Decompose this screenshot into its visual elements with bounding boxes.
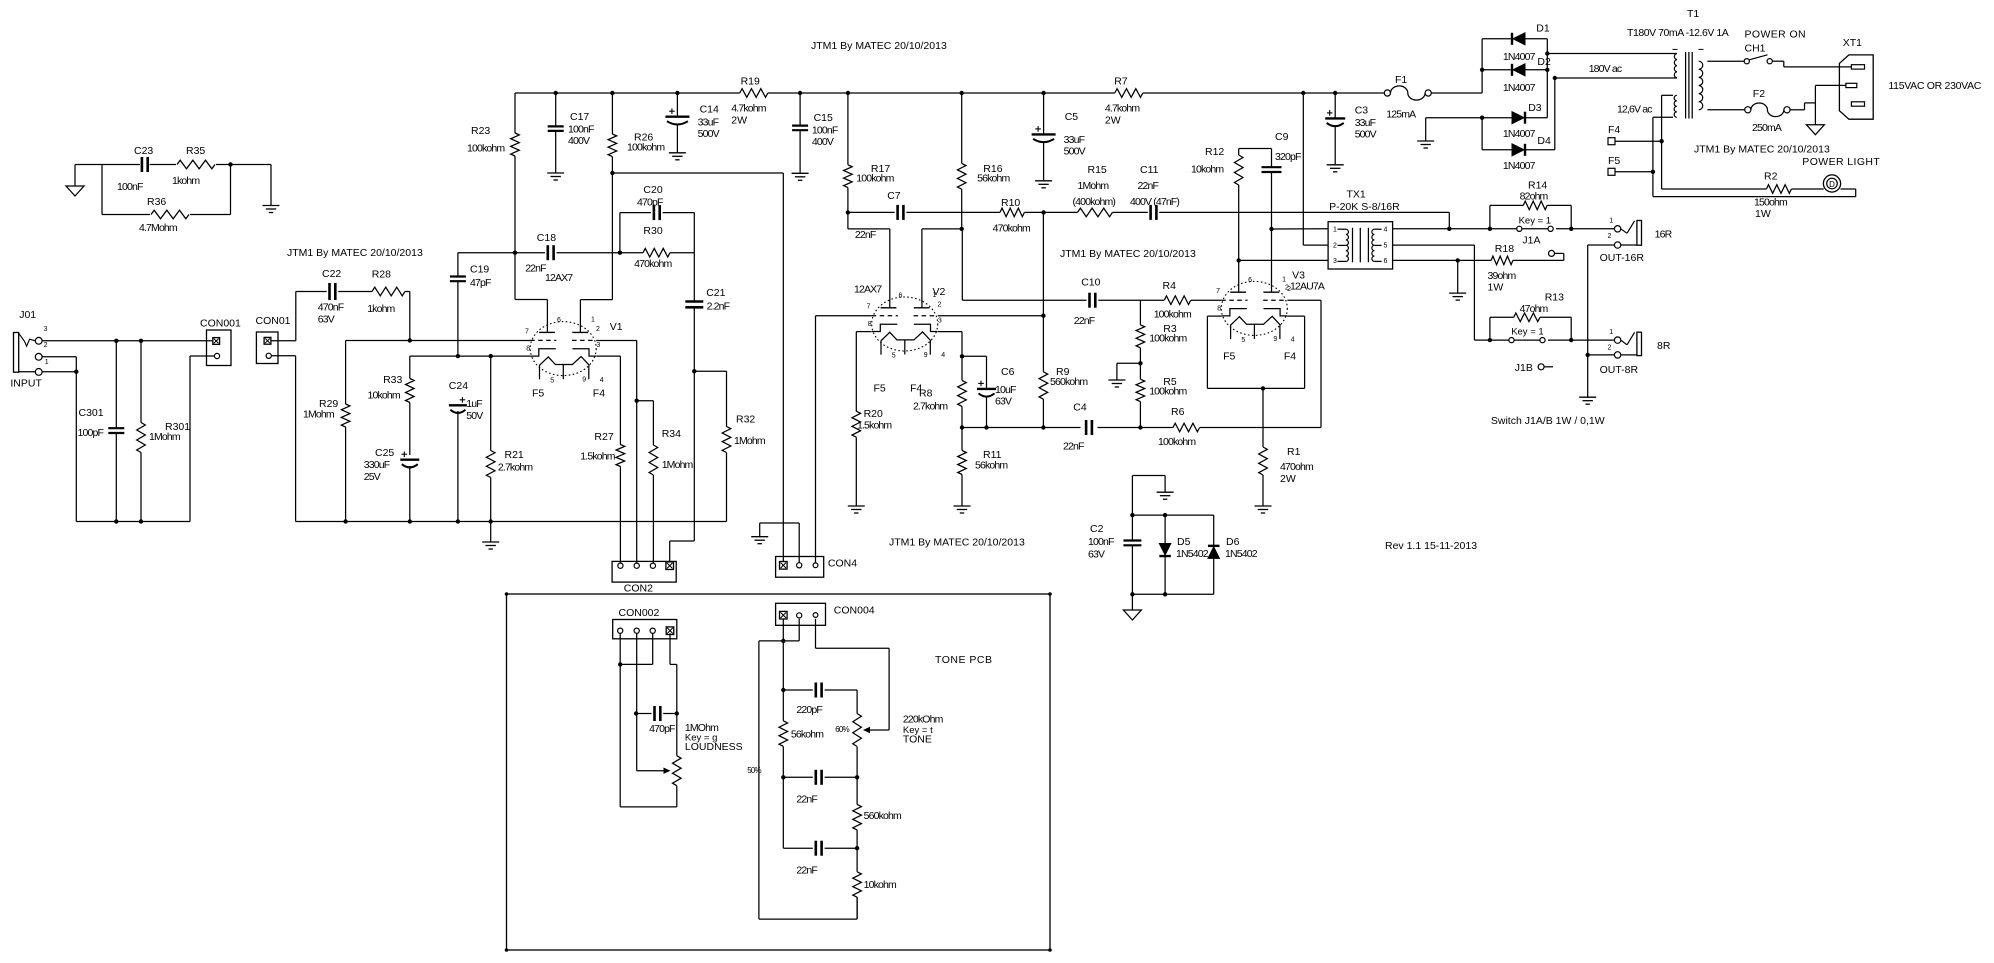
wire: CON002 pin2 to loudness wiper	[636, 633, 638, 770]
svg-text:F4: F4	[910, 383, 922, 395]
svg-text:C2: C2	[1090, 523, 1104, 535]
ground (earth) of V1 stage rail	[490, 522, 492, 542]
svg-text:22nF: 22nF	[1063, 441, 1084, 453]
svg-text:F5: F5	[874, 383, 886, 395]
svg-text:330uF: 330uF	[364, 459, 390, 471]
capacitor C19	[457, 253, 459, 276]
ground (earth) below C5	[1035, 180, 1052, 182]
svg-text:100pF: 100pF	[78, 427, 104, 439]
wire: CON004 pin2 stub	[798, 619, 800, 641]
connector CON001	[207, 330, 232, 366]
svg-text:OUT-8R: OUT-8R	[1600, 364, 1639, 376]
svg-text:C7: C7	[887, 190, 901, 202]
svg-text:100nF: 100nF	[812, 125, 838, 137]
tube V2 plates	[881, 307, 897, 309]
svg-text:R6: R6	[1171, 406, 1185, 418]
svg-text:7: 7	[1216, 288, 1220, 295]
svg-text:56kohm: 56kohm	[975, 460, 1008, 472]
wire: TX1 pin3 line	[1239, 259, 1328, 261]
svg-text:7: 7	[867, 304, 871, 311]
svg-text:T1: T1	[1687, 8, 1699, 20]
svg-text:C21: C21	[706, 287, 725, 299]
svg-text:2W: 2W	[731, 115, 747, 127]
resistor R21	[490, 356, 492, 451]
svg-text:Switch J1A/B 1W / 0,1W: Switch J1A/B 1W / 0,1W	[1491, 415, 1605, 427]
resistor R29	[345, 341, 347, 405]
svg-text:22nF: 22nF	[1138, 180, 1159, 192]
svg-text:100kohm: 100kohm	[856, 173, 894, 185]
wire: R6 up to V3 right grid	[1320, 300, 1322, 427]
svg-text:1: 1	[1333, 227, 1337, 234]
svg-text:2.7kohm: 2.7kohm	[913, 401, 948, 413]
ground (chassis) of bias network	[1131, 594, 1133, 610]
svg-text:12AX7: 12AX7	[545, 272, 573, 284]
power light lamp	[1823, 175, 1840, 192]
svg-text:C4: C4	[1073, 402, 1087, 414]
svg-text:C24: C24	[449, 380, 468, 392]
svg-text:1Mohm: 1Mohm	[662, 459, 694, 471]
svg-text:J01: J01	[19, 309, 36, 321]
capacitor C18	[546, 245, 549, 260]
svg-text:100kohm: 100kohm	[627, 142, 665, 154]
svg-text:22nF: 22nF	[796, 794, 817, 806]
svg-text:250mA: 250mA	[1752, 122, 1782, 134]
wire: CH1 to XT1 line pin	[1772, 60, 1784, 62]
svg-text:R36: R36	[147, 196, 166, 208]
svg-text:1Mohm: 1Mohm	[149, 431, 181, 443]
svg-text:C10: C10	[1081, 277, 1100, 289]
wire: OUT-16R to ground column	[1588, 244, 1615, 246]
svg-text:50V: 50V	[466, 410, 483, 422]
svg-text:R30: R30	[643, 225, 662, 237]
wire: 180V ac lower	[1555, 77, 1677, 79]
svg-text:C17: C17	[570, 111, 589, 123]
svg-text:R34: R34	[662, 428, 681, 440]
ground (earth) near CON4	[751, 536, 768, 538]
svg-text:R33: R33	[383, 374, 402, 386]
svg-text:8: 8	[526, 346, 530, 353]
resistor R7	[1115, 89, 1143, 98]
capacitor C15	[799, 93, 801, 125]
svg-text:F2: F2	[1753, 88, 1765, 100]
svg-text:JTM1 By MATEC 20/10/2013: JTM1 By MATEC 20/10/2013	[1694, 144, 1830, 156]
svg-text:LOUDNESS: LOUDNESS	[685, 741, 743, 753]
wire: divider midpoint to ground	[1117, 362, 1141, 364]
svg-text:16R: 16R	[1655, 229, 1673, 241]
tube V2 heater	[881, 332, 931, 341]
svg-text:12AX7: 12AX7	[0, 0, 28, 3]
jack 8R	[1614, 337, 1620, 343]
svg-text:INPUT: INPUT	[10, 378, 42, 390]
svg-text:R15: R15	[1088, 164, 1107, 176]
svg-text:CON002: CON002	[619, 607, 660, 619]
svg-text:2: 2	[596, 326, 600, 333]
connector CON4	[776, 557, 824, 578]
capacitor C20	[653, 205, 656, 220]
capacitor 22nF lower (tone)	[783, 847, 813, 849]
resistor R6	[1173, 423, 1200, 432]
ground (earth) below R11	[954, 505, 971, 507]
svg-text:9: 9	[582, 376, 586, 383]
svg-text:6: 6	[557, 317, 561, 324]
svg-text:1W: 1W	[1488, 282, 1504, 294]
svg-text:180V ac: 180V ac	[1589, 63, 1622, 75]
capacitor C4	[1085, 420, 1088, 435]
svg-text:500V: 500V	[698, 128, 720, 140]
svg-text:CH1: CH1	[1745, 43, 1766, 55]
resistor R19	[740, 89, 768, 98]
wire: R9 divider column	[1042, 212, 1044, 371]
svg-text:D5: D5	[1177, 536, 1191, 548]
svg-text:150ohm: 150ohm	[1754, 197, 1788, 209]
capacitor C5 (electrolytic)	[1043, 93, 1045, 134]
svg-text:2.7kohm: 2.7kohm	[498, 461, 533, 473]
resistor R16	[961, 93, 963, 163]
tube V3 plates	[1230, 291, 1246, 293]
connector CON002	[613, 620, 677, 639]
wire: D3/D4 left leg to ground	[1481, 118, 1483, 150]
svg-text:2: 2	[1608, 233, 1612, 240]
svg-text:1.5kohm: 1.5kohm	[580, 451, 615, 463]
wire: bias network bottom rail	[1132, 593, 1213, 595]
resistor R13 with bypass loop	[1489, 317, 1491, 340]
capacitor C11	[1149, 205, 1152, 220]
svg-text:(400kohm): (400kohm)	[1073, 196, 1116, 208]
svg-text:22nF: 22nF	[1074, 315, 1095, 327]
jack 16R	[1614, 226, 1620, 232]
tube V1 grid (dashed)	[530, 339, 556, 341]
wire: 16R output line	[1393, 228, 1517, 230]
svg-text:TONE: TONE	[903, 734, 932, 746]
svg-text:R13: R13	[1545, 292, 1564, 304]
wire: CON002 pin3 tie	[652, 633, 654, 664]
svg-text:OUT-16R: OUT-16R	[1600, 252, 1645, 264]
svg-text:1: 1	[1282, 276, 1286, 283]
svg-text:F1: F1	[1395, 74, 1407, 86]
svg-text:JTM1 By MATEC 20/10/2013: JTM1 By MATEC 20/10/2013	[287, 247, 423, 259]
diode D3	[1482, 117, 1511, 119]
wire: CON4 pin2 to ground	[798, 523, 800, 563]
svg-text:F5: F5	[1223, 351, 1235, 363]
wire: diode bridge left leg D1/D2	[1481, 39, 1483, 93]
tube V1 cathodes	[531, 349, 556, 356]
resistor R36	[151, 210, 189, 219]
capacitor C14 (electrolytic)	[676, 93, 678, 117]
tube V1 plates	[539, 331, 555, 333]
svg-text:5: 5	[1241, 337, 1245, 344]
svg-text:Key = 1: Key = 1	[1519, 215, 1551, 226]
svg-text:F4: F4	[1284, 351, 1296, 363]
svg-text:9: 9	[924, 352, 928, 359]
svg-text:7: 7	[525, 328, 529, 335]
svg-text:56kohm: 56kohm	[977, 173, 1010, 185]
svg-text:C25: C25	[375, 447, 394, 459]
svg-text:2: 2	[938, 302, 942, 309]
svg-text:9: 9	[1273, 336, 1277, 343]
resistor 560kohm (tone)	[856, 777, 858, 804]
diode D1	[1482, 38, 1511, 40]
svg-text:R21: R21	[505, 449, 524, 461]
svg-text:CON01: CON01	[256, 315, 291, 327]
wire: CON004 pin1 left column of tone stack	[782, 619, 784, 721]
svg-text:500V: 500V	[1064, 146, 1086, 158]
wire: CON004 pin3 to tone wiper	[815, 619, 817, 648]
svg-text:C301: C301	[79, 407, 104, 419]
wire: V1 right cathode to CON2 pin1	[596, 355, 620, 357]
ground (earth) on TX1 secondary common	[1457, 260, 1459, 292]
diode D6	[1213, 515, 1215, 546]
svg-text:4: 4	[600, 377, 604, 384]
resistor R28	[372, 287, 405, 296]
svg-text:C3: C3	[1355, 105, 1369, 117]
svg-text:100kohm: 100kohm	[1158, 436, 1196, 448]
svg-text:63V: 63V	[1088, 549, 1105, 561]
diode D4	[1482, 149, 1511, 151]
svg-text:5: 5	[892, 353, 896, 360]
svg-text:8R: 8R	[1657, 340, 1671, 352]
heater net tab F5	[1608, 168, 1615, 175]
svg-text:F5: F5	[532, 388, 544, 400]
svg-text:POWER ON: POWER ON	[1745, 29, 1807, 41]
capacitor C22	[328, 283, 331, 300]
wire: CON002 pin1 down and loop to loudness pot bottom	[619, 633, 621, 807]
svg-text:115VAC OR 230VAC: 115VAC OR 230VAC	[1888, 80, 1981, 92]
svg-text:12AU7A: 12AU7A	[1290, 281, 1325, 293]
svg-text:400V: 400V	[568, 135, 590, 147]
wire: C21 branch down to CON2 pin4	[693, 253, 695, 301]
wire: C4 line	[962, 427, 1081, 429]
tube V1 heater	[539, 357, 589, 366]
wire: TX1 pin5 to 8R line	[1393, 244, 1475, 246]
svg-text:12,6V ac: 12,6V ac	[1617, 104, 1652, 116]
svg-text:47ohm: 47ohm	[1520, 303, 1549, 315]
ground (earth) below C15	[792, 172, 809, 174]
svg-text:POWER LIGHT: POWER LIGHT	[1802, 156, 1880, 168]
svg-text:4.7kohm: 4.7kohm	[1105, 103, 1140, 115]
tube V3 grid (dashed)	[1221, 299, 1247, 301]
svg-text:Rev 1.1 15-11-2013: Rev 1.1 15-11-2013	[1385, 540, 1477, 552]
wire: OUT-8R link	[1588, 354, 1615, 356]
wire: C10 coupling from V2 right plate	[961, 229, 963, 300]
svg-text:39ohm: 39ohm	[1488, 270, 1517, 282]
svg-text:CON2: CON2	[624, 583, 653, 595]
svg-text:F4: F4	[593, 388, 605, 400]
wire: feedback line from R26 junction down to CON4 pin1	[612, 172, 783, 174]
svg-text:470pF: 470pF	[649, 723, 675, 735]
output transformer TX1	[1328, 222, 1393, 269]
switch J1B (Key = 1)	[1509, 338, 1514, 343]
svg-text:82ohm: 82ohm	[1520, 190, 1549, 202]
wire: CON4 pin3 up to V2 grid	[815, 316, 817, 563]
svg-text:10kohm: 10kohm	[864, 879, 897, 891]
svg-text:2: 2	[1333, 243, 1337, 250]
resistor R1	[1262, 388, 1264, 447]
svg-text:22nF: 22nF	[525, 263, 546, 275]
wire: preamp output line (C7/R10/R15/C11)	[848, 211, 895, 213]
svg-text:470pF: 470pF	[637, 196, 663, 208]
svg-text:C22: C22	[322, 268, 341, 280]
ground (earth) below R20	[848, 505, 865, 507]
svg-text:6: 6	[1384, 258, 1388, 265]
svg-text:2: 2	[1608, 345, 1612, 352]
wire: C18 coupling line	[458, 252, 545, 254]
ground (earth) below C17	[547, 172, 564, 174]
svg-text:56kohm: 56kohm	[791, 728, 824, 740]
svg-text:CON4: CON4	[828, 558, 857, 570]
switch CH1 POWER ON	[1707, 60, 1744, 62]
svg-text:3: 3	[44, 326, 48, 333]
svg-text:C6: C6	[1001, 366, 1015, 378]
wire: V2 left cathode to R20	[856, 331, 871, 333]
wire: branch to R34	[637, 400, 654, 402]
svg-text:2W: 2W	[1280, 473, 1296, 485]
input jack J01	[14, 333, 19, 373]
resistor R33	[409, 356, 411, 378]
wire: R23 to V1 left plate	[515, 299, 547, 301]
svg-text:1Mohm: 1Mohm	[303, 409, 335, 421]
svg-text:560kohm: 560kohm	[864, 810, 902, 822]
ground (earth) of rectifier	[1417, 140, 1434, 142]
capacitor C24 (electrolytic)	[449, 404, 467, 406]
svg-text:4: 4	[941, 352, 945, 359]
resistor R35	[177, 160, 215, 169]
wire: 180V ac upper	[1547, 53, 1677, 55]
wire: C20 parallel loop	[619, 213, 621, 253]
wire: bias network top rail	[1132, 514, 1213, 516]
svg-text:D: D	[1829, 180, 1835, 189]
capacitor C9	[1271, 149, 1273, 167]
svg-text:D1: D1	[1536, 22, 1550, 34]
svg-text:470kohm: 470kohm	[993, 222, 1031, 234]
svg-text:F4: F4	[1608, 124, 1620, 136]
resistor R17	[847, 93, 849, 165]
svg-text:J1B: J1B	[1515, 362, 1533, 374]
resistor R30	[620, 252, 643, 254]
tube V2 grid (dashed)	[872, 315, 898, 317]
svg-text:1: 1	[1609, 329, 1613, 336]
resistor R10	[1000, 208, 1024, 217]
wire: V1 cathode line	[410, 355, 531, 357]
svg-text:R32: R32	[736, 414, 755, 426]
ground (earth) of bias network	[1157, 491, 1174, 493]
svg-text:560kohm: 560kohm	[1050, 376, 1088, 388]
svg-text:TONE PCB: TONE PCB	[935, 654, 992, 666]
svg-text:C14: C14	[700, 104, 719, 116]
wire: V3 cathode box	[1207, 315, 1221, 317]
svg-text:1N5402: 1N5402	[1225, 548, 1258, 560]
svg-text:R20: R20	[864, 408, 883, 420]
svg-text:2.2nF: 2.2nF	[707, 301, 730, 313]
tube V3 cathodes	[1222, 309, 1247, 316]
svg-text:3: 3	[1333, 258, 1337, 265]
svg-text:C15: C15	[814, 112, 833, 124]
svg-text:V2: V2	[933, 286, 946, 298]
svg-text:R27: R27	[594, 431, 613, 443]
svg-text:C23: C23	[134, 145, 153, 157]
svg-text:10uF: 10uF	[995, 384, 1016, 396]
svg-text:J1A: J1A	[1522, 235, 1540, 247]
resistor R23	[514, 93, 516, 133]
svg-text:C19: C19	[470, 264, 489, 276]
tube V2 cathodes	[872, 324, 897, 331]
diode D5	[1164, 515, 1166, 543]
svg-text:22nF: 22nF	[796, 865, 817, 877]
svg-text:220kOhm: 220kOhm	[903, 714, 944, 726]
svg-text:470ohm: 470ohm	[1280, 461, 1314, 473]
svg-text:R12: R12	[1205, 146, 1224, 158]
svg-text:JTM1 By MATEC 20/10/2013: JTM1 By MATEC 20/10/2013	[1060, 248, 1196, 260]
svg-text:JTM1 By MATEC 20/10/2013: JTM1 By MATEC 20/10/2013	[811, 40, 947, 52]
resistor R4	[1164, 296, 1191, 305]
wire: feedback tap to 16R line	[1448, 212, 1450, 228]
wire: B+ rail	[515, 92, 740, 94]
svg-text:2W: 2W	[1105, 115, 1121, 127]
tube V1 envelope	[530, 322, 596, 376]
svg-text:4: 4	[1291, 337, 1295, 344]
wire: R26 to V1 right plate	[580, 299, 612, 301]
svg-text:1: 1	[591, 317, 595, 324]
svg-text:1kohm: 1kohm	[172, 175, 200, 187]
wire: diode bridge right leg D4 to 180V lower	[1554, 78, 1556, 150]
svg-text:R1: R1	[1287, 446, 1301, 458]
connector CON01	[256, 332, 278, 364]
wire: 8R output line	[1490, 339, 1509, 341]
svg-text:1uF: 1uF	[466, 398, 482, 410]
connector CON004	[776, 603, 826, 625]
svg-text:R4: R4	[1163, 280, 1177, 292]
wire: R32 branch	[694, 370, 726, 372]
svg-text:100kohm: 100kohm	[1154, 308, 1192, 320]
resistor R18	[1491, 256, 1513, 265]
svg-text:V1: V1	[610, 321, 623, 333]
svg-text:2: 2	[1285, 285, 1289, 292]
svg-text:63V: 63V	[318, 314, 335, 326]
wire: TX1 pin2 from B+ rail	[1302, 93, 1304, 245]
resistor R5	[1139, 363, 1141, 379]
wire: CON002 pin4 to loudness pot top	[669, 633, 671, 664]
svg-text:500V: 500V	[1355, 129, 1377, 141]
svg-text:2: 2	[44, 342, 48, 349]
svg-text:220pF: 220pF	[796, 704, 822, 716]
capacitor C301	[115, 341, 117, 428]
resistor 56kohm (tone)	[779, 721, 788, 747]
tube V3 envelope	[1221, 281, 1287, 335]
connector CON2	[612, 561, 676, 582]
svg-text:4.7Mohm: 4.7Mohm	[139, 222, 178, 234]
resistor R34	[652, 401, 654, 445]
svg-text:Key = 1: Key = 1	[1511, 327, 1543, 338]
svg-text:1W: 1W	[1755, 208, 1771, 220]
svg-text:5: 5	[1384, 243, 1388, 250]
wire: CON001 pin2 to ground bus	[190, 355, 214, 357]
svg-text:8: 8	[868, 321, 872, 328]
wire: input ground bus	[76, 521, 190, 523]
diode D2	[1482, 69, 1511, 71]
resistor R20	[852, 411, 861, 437]
svg-text:400V (47nF): 400V (47nF)	[1130, 196, 1179, 208]
wire: 12.6V ac feeds	[1662, 94, 1673, 96]
tube V1 bottom pin leads	[562, 365, 564, 380]
resistor R11	[961, 428, 963, 451]
svg-text:1Mohm: 1Mohm	[734, 435, 766, 447]
svg-text:T180V 70mA -12.6V 1A: T180V 70mA -12.6V 1A	[1627, 27, 1729, 39]
svg-text:CON001: CON001	[200, 318, 241, 330]
wire: heater bias network top link to ground	[1131, 476, 1133, 516]
resistor R27	[616, 445, 625, 467]
svg-text:R7: R7	[1114, 76, 1128, 88]
svg-text:100nF: 100nF	[117, 181, 143, 193]
wire: F2 to XT1 neutral pin and ground	[1790, 109, 1804, 111]
